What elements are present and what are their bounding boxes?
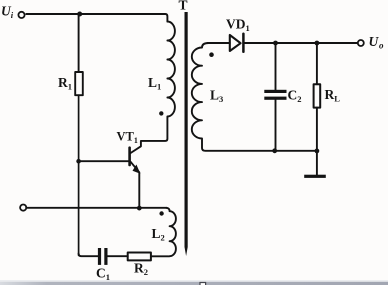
svg-text:T: T: [179, 0, 188, 13]
